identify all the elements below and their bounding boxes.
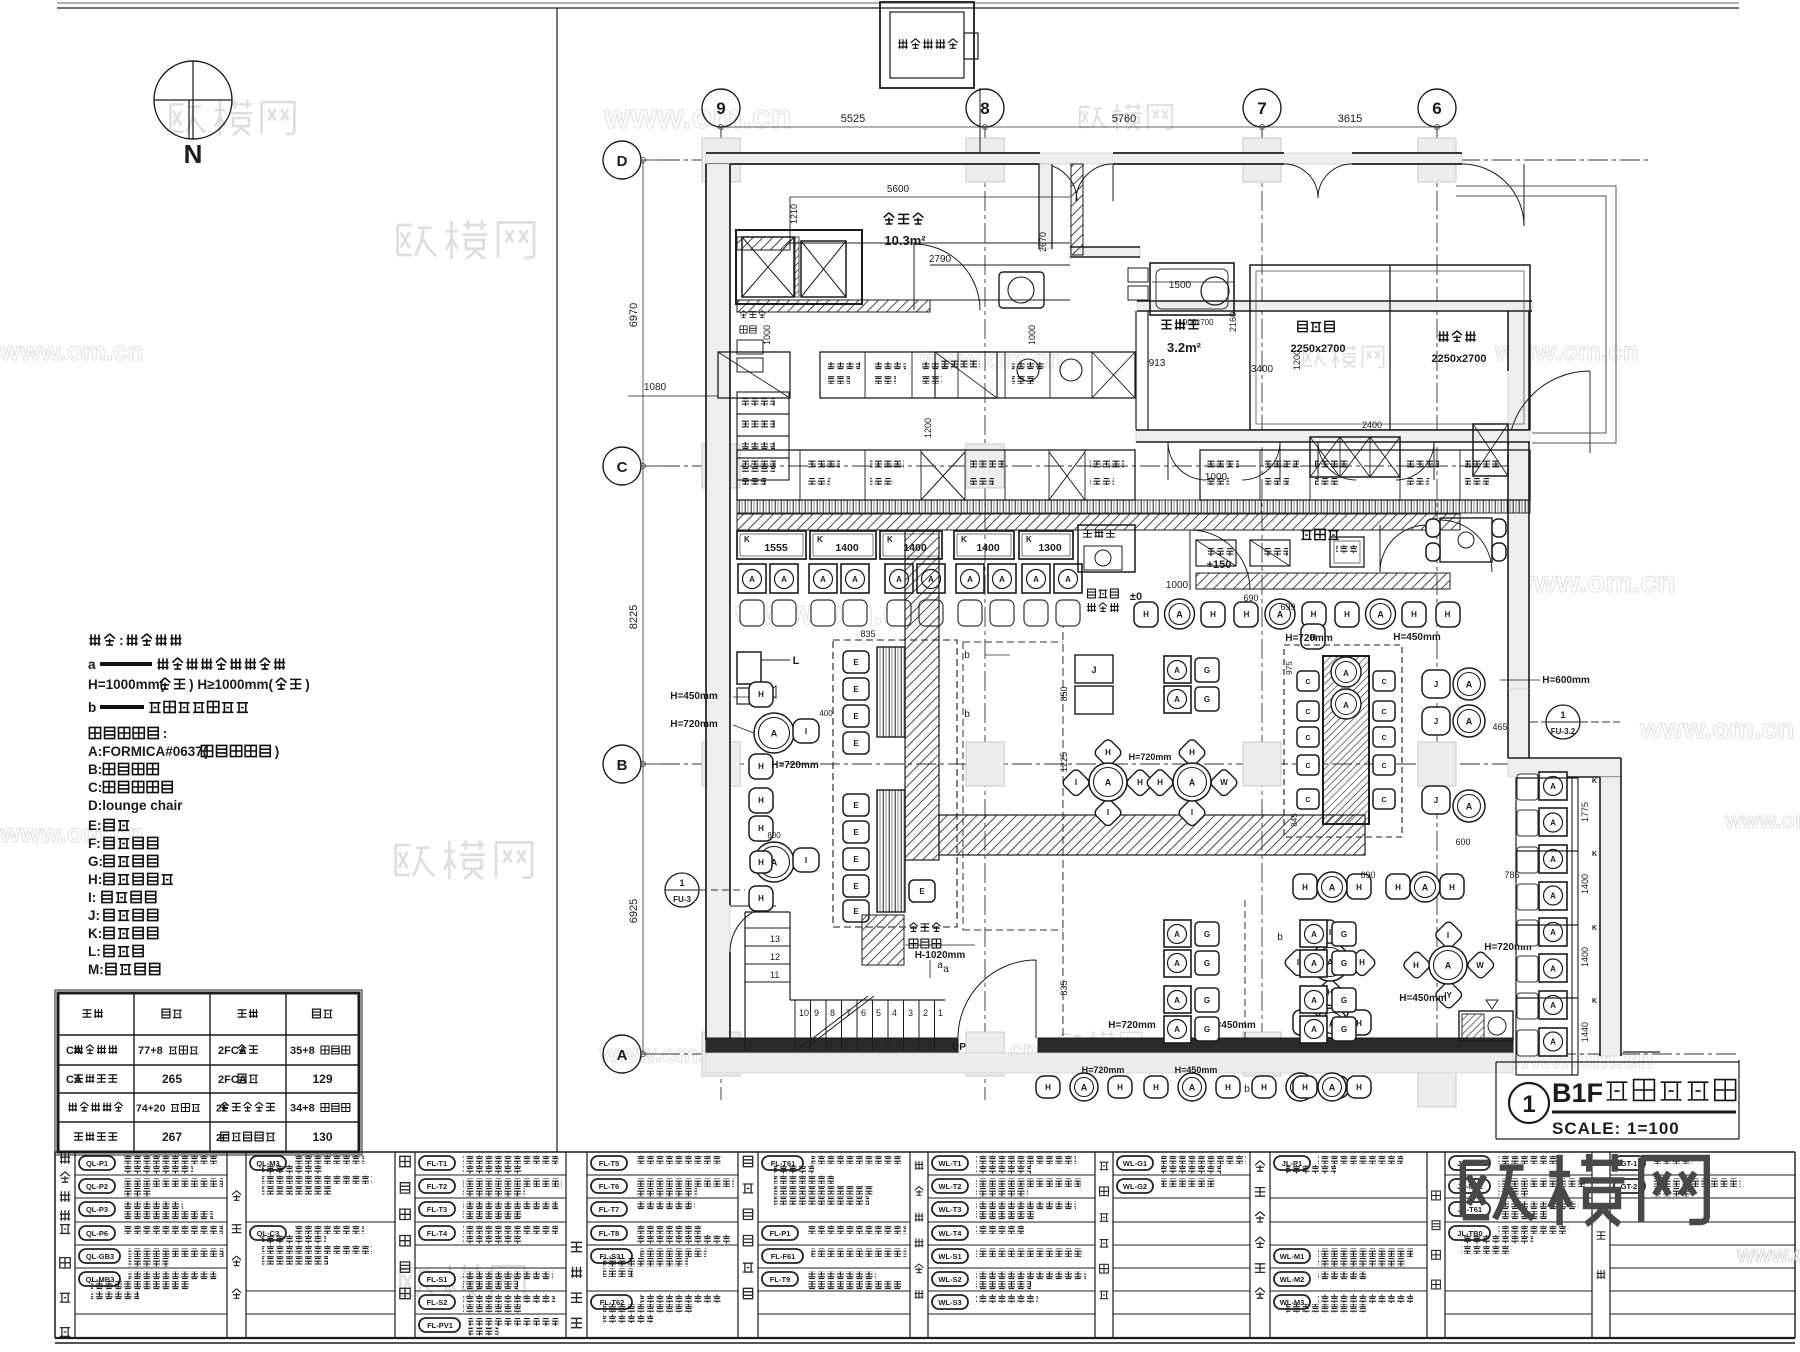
svg-text:H=720mm: H=720mm [1285, 633, 1333, 644]
svg-text:E: E [853, 882, 859, 891]
svg-text:G: G [1341, 1025, 1347, 1034]
svg-text:FL-T4: FL-T4 [427, 1229, 448, 1238]
svg-text:5600: 5600 [887, 184, 910, 195]
svg-text:1: 1 [679, 878, 684, 888]
staff room door [1380, 525, 1427, 572]
svg-text:H:: H: [88, 872, 102, 887]
svg-text:QL-GB3: QL-GB3 [86, 1252, 114, 1261]
svg-text:H: H [758, 824, 764, 833]
svg-text:A: A [1422, 883, 1429, 893]
svg-text:CA: CA [66, 1074, 82, 1086]
svg-text:I: I [805, 856, 807, 865]
staff table with 4 chairs [1440, 518, 1492, 562]
wall below cold rooms [1136, 430, 1530, 442]
svg-text:H: H [1244, 610, 1250, 619]
svg-text:FL-T8: FL-T8 [599, 1229, 619, 1238]
svg-text:GT-1: GT-1 [1621, 1159, 1638, 1168]
svg-text:K: K [1592, 998, 1597, 1005]
svg-text:6: 6 [861, 1008, 866, 1018]
svg-text:10.3m²: 10.3m² [884, 233, 926, 248]
title block B1F [1496, 1052, 1739, 1139]
left cluster 2 [749, 816, 773, 841]
svg-text:1000: 1000 [1027, 325, 1037, 345]
J chairs + round tables [1422, 670, 1450, 698]
svg-text:C: C [1305, 709, 1310, 716]
svg-text:H=720mm: H=720mm [1082, 1065, 1125, 1075]
svg-text:H: H [758, 894, 764, 903]
svg-text:a: a [937, 960, 943, 971]
svg-text:1440: 1440 [1580, 1022, 1590, 1042]
clusters lower right [1315, 918, 1345, 948]
svg-text:A: A [1311, 996, 1317, 1005]
kitchen counters upper row [718, 352, 790, 398]
svg-text:6970: 6970 [628, 303, 640, 327]
svg-text:G: G [1204, 695, 1210, 704]
svg-text:I:: I: [88, 890, 96, 905]
right exterior wall lower [1600, 777, 1621, 1056]
svg-text:C: C [1381, 735, 1386, 742]
svg-text:H=450mm: H=450mm [1393, 632, 1441, 643]
+150 door arc right [1440, 520, 1492, 572]
svg-text:G: G [1204, 930, 1210, 939]
H=720 mid label [749, 788, 773, 813]
bar E chairs and striped tables [843, 651, 869, 673]
svg-text:QL-P1: QL-P1 [86, 1159, 108, 1168]
svg-text:K: K [1592, 851, 1597, 858]
svg-text:A: A [852, 575, 858, 584]
svg-text:W: W [1476, 961, 1484, 970]
svg-text:2670: 2670 [1038, 232, 1048, 252]
svg-text:FL-T5: FL-T5 [599, 1159, 619, 1168]
FU circles [665, 873, 699, 907]
svg-text:A: A [967, 575, 973, 584]
svg-text:QL-P6: QL-P6 [86, 1229, 108, 1238]
svg-text:E: E [853, 739, 859, 748]
wall under corridor y255 [1070, 247, 1140, 257]
svg-text:WL-S1: WL-S1 [938, 1252, 961, 1261]
svg-text:C: C [1305, 679, 1310, 686]
svg-text:1400: 1400 [835, 542, 859, 554]
svg-text:A: A [1466, 717, 1473, 727]
svg-text:www.om.cn: www.om.cn [1724, 808, 1800, 833]
svg-text:2: 2 [923, 1008, 928, 1018]
svg-text:H: H [1302, 883, 1308, 892]
svg-text:QL-P3: QL-P3 [86, 1205, 108, 1214]
svg-text:5525: 5525 [841, 113, 865, 125]
svg-text:2F: 2F [216, 1103, 229, 1115]
svg-text:K: K [1592, 778, 1597, 785]
svg-text:CA: CA [66, 1045, 82, 1057]
svg-text:A: A [1065, 575, 1071, 584]
dry goods room walls [737, 237, 790, 250]
svg-text:H: H [1311, 610, 1317, 619]
sheet border frame [57, 2, 1739, 4]
double door top 1 [1040, 164, 1113, 201]
communal long table [1284, 645, 1402, 837]
svg-text:3400: 3400 [1251, 364, 1274, 375]
svg-text:1555: 1555 [764, 542, 788, 554]
svg-text:A: A [1466, 680, 1473, 690]
svg-text:A: A [1174, 1025, 1180, 1034]
door right wall [1508, 371, 1590, 453]
boxes under dry room [935, 352, 997, 398]
svg-text:3: 3 [908, 1008, 913, 1018]
svg-text:975: 975 [1285, 661, 1294, 675]
svg-text:1080: 1080 [644, 382, 667, 393]
svg-text:) H≥1000mm(: ) H≥1000mm( [189, 677, 273, 692]
svg-text:12: 12 [770, 952, 780, 962]
grid dimension texts [721, 126, 1437, 128]
svg-text:H=450mm: H=450mm [670, 691, 718, 702]
svg-text:A: A [1343, 669, 1349, 678]
svg-text:b: b [1277, 932, 1283, 943]
svg-text:9: 9 [814, 1008, 819, 1018]
svg-text:2400: 2400 [1362, 420, 1382, 430]
svg-text:H: H [758, 796, 764, 805]
svg-text:H=720mm: H=720mm [670, 719, 718, 730]
svg-text:H: H [1045, 1083, 1051, 1092]
svg-text:A: A [1174, 996, 1180, 1005]
svg-text:267: 267 [162, 1130, 182, 1144]
tile tick row [737, 500, 1530, 513]
svg-text:www.om.cn: www.om.cn [0, 336, 144, 366]
schedule category columns [55, 1152, 1610, 1338]
cold rooms [1250, 265, 1530, 430]
svg-text:74+20: 74+20 [136, 1103, 166, 1115]
svg-text:I: I [1107, 808, 1109, 817]
svg-text:A: A [781, 575, 787, 584]
svg-text:8: 8 [980, 99, 989, 118]
svg-text:WL-S2: WL-S2 [938, 1275, 961, 1284]
svg-text:FL-T6: FL-T6 [599, 1182, 619, 1191]
svg-text:A: A [1466, 802, 1473, 812]
svg-text:2160: 2160 [1228, 312, 1238, 332]
svg-text:I: I [1297, 958, 1299, 967]
svg-text:J: J [1434, 717, 1438, 726]
svg-text:1: 1 [1560, 710, 1565, 720]
svg-text:W: W [1220, 778, 1228, 787]
svg-text:G: G [1341, 930, 1347, 939]
svg-text:FU-3.2: FU-3.2 [1551, 727, 1576, 736]
svg-text:A: A [1176, 610, 1183, 620]
svg-text:699: 699 [1280, 602, 1295, 612]
svg-text:2790: 2790 [929, 254, 952, 265]
svg-text:FL-T1: FL-T1 [427, 1159, 447, 1168]
schedule content groups [75, 1174, 227, 1176]
svg-text:H=600mm: H=600mm [1542, 675, 1590, 686]
svg-text:C: C [1305, 735, 1310, 742]
svg-text:G: G [1341, 996, 1347, 1005]
C-line long counter [737, 450, 1135, 500]
svg-text:A: A [1311, 959, 1317, 968]
svg-text:FL-T2: FL-T2 [427, 1182, 447, 1191]
hatched band horizontal mid [939, 815, 1365, 855]
svg-text:H: H [1356, 883, 1362, 892]
svg-text:6: 6 [1432, 99, 1441, 118]
svg-text:I: I [805, 727, 807, 736]
svg-text:A: A [1550, 782, 1556, 791]
dining cluster tables [1093, 738, 1123, 768]
svg-text:H: H [1137, 778, 1143, 787]
svg-text:K: K [961, 535, 967, 544]
left wall cabinet stack [737, 392, 789, 414]
svg-text:B1F: B1F [1552, 1078, 1603, 1108]
svg-text:850: 850 [1059, 686, 1069, 701]
svg-text:L:: L: [88, 944, 101, 959]
svg-text:E:: E: [88, 818, 102, 833]
svg-text:129: 129 [312, 1072, 332, 1086]
svg-text:D:lounge chair: D:lounge chair [88, 798, 183, 813]
svg-text:H: H [758, 690, 764, 699]
svg-text:H=1000mm(: H=1000mm( [88, 677, 165, 692]
fridge boxes left of cluster [1075, 655, 1113, 683]
svg-text:J: J [1434, 796, 1438, 805]
svg-text:A: A [1174, 666, 1180, 675]
svg-text:): ) [275, 744, 280, 759]
wash stand [1078, 525, 1135, 572]
svg-text:G:: G: [88, 854, 103, 869]
svg-text:B:: B: [88, 762, 102, 777]
svg-text:1210: 1210 [789, 204, 799, 224]
svg-text:A: A [1550, 1038, 1556, 1047]
svg-text:FL-F61: FL-F61 [771, 1252, 796, 1261]
svg-text:WL-T1: WL-T1 [939, 1159, 962, 1168]
svg-text:SCALE: 1=100: SCALE: 1=100 [1552, 1119, 1680, 1138]
svg-text:K: K [1026, 535, 1032, 544]
svg-text:±0: ±0 [1130, 591, 1142, 603]
dry goods labels [884, 213, 924, 224]
svg-text:H: H [1302, 1083, 1308, 1092]
svg-text:WL-G1: WL-G1 [1123, 1159, 1147, 1168]
C counter labels [742, 460, 776, 468]
svg-text:7: 7 [1257, 99, 1266, 118]
structural columns (grey) [702, 138, 1456, 1107]
bottom right cart [1459, 1011, 1513, 1041]
svg-text:A: A [1174, 930, 1180, 939]
svg-text:H=720mm: H=720mm [771, 760, 819, 771]
svg-text:8: 8 [830, 1008, 835, 1018]
svg-text:2F: 2F [216, 1132, 229, 1144]
svg-text:H: H [1105, 748, 1111, 757]
svg-text:845: 845 [1290, 813, 1299, 827]
svg-text:FL-P1: FL-P1 [770, 1229, 791, 1238]
svg-text:M:: M: [88, 962, 104, 977]
svg-text:): ) [305, 677, 310, 692]
svg-text:www.om.cn: www.om.cn [1639, 713, 1795, 744]
svg-text:130: 130 [312, 1130, 332, 1144]
staircase [744, 912, 746, 1050]
svg-text:H: H [1344, 610, 1350, 619]
A/G square blocks [1164, 656, 1191, 683]
svg-text:H=450mm: H=450mm [1399, 993, 1447, 1004]
svg-text:G: G [1204, 959, 1210, 968]
svg-text:A: A [1445, 961, 1452, 971]
svg-text:1200: 1200 [923, 418, 933, 438]
svg-text:A: A [1550, 1001, 1556, 1010]
svg-text:H: H [1411, 610, 1417, 619]
svg-text:H: H [1449, 883, 1455, 892]
left cluster 1 [749, 682, 773, 707]
svg-text:A: A [771, 729, 778, 739]
top exterior wall along grid D [706, 153, 1462, 164]
svg-text:H: H [1356, 1083, 1362, 1092]
svg-text:A: A [1105, 778, 1112, 788]
svg-text:WL-S3: WL-S3 [938, 1298, 961, 1307]
svg-text:FL-T7: FL-T7 [599, 1205, 619, 1214]
svg-text:1400: 1400 [1580, 874, 1590, 894]
svg-text:1200: 1200 [1292, 350, 1302, 370]
hatched wall x1071 [1071, 164, 1083, 255]
svg-text:E: E [853, 685, 859, 694]
grid bubbles left D C B A [603, 141, 641, 179]
svg-text:465: 465 [1492, 722, 1507, 732]
svg-text:K: K [1592, 925, 1597, 932]
elevator block [736, 230, 862, 304]
svg-text:A: A [1550, 819, 1556, 828]
svg-text:A: A [1550, 928, 1556, 937]
svg-text:E: E [853, 907, 859, 916]
trio bottom [1293, 1010, 1317, 1035]
svg-text:A: A [1343, 701, 1349, 710]
svg-text:H=450mm: H=450mm [1175, 1065, 1218, 1075]
svg-text:www.om.cn: www.om.cn [0, 818, 144, 848]
svg-text:WL-M1: WL-M1 [1280, 1252, 1305, 1261]
svg-text:H=720mm: H=720mm [1129, 752, 1172, 762]
right exterior wall upper [1508, 311, 1529, 689]
double door top 2 [1284, 164, 1352, 198]
sink unit [1150, 263, 1234, 315]
svg-text:H: H [1157, 778, 1163, 787]
svg-text:A: A [896, 575, 902, 584]
svg-text:A: A [1550, 965, 1556, 974]
svg-text:E: E [853, 855, 859, 864]
svg-text:1: 1 [1522, 1091, 1535, 1118]
svg-text:2FCA: 2FCA [218, 1074, 247, 1086]
svg-text:E: E [853, 801, 859, 810]
svg-text:A: A [1081, 1083, 1088, 1093]
svg-text:b: b [1244, 1084, 1250, 1095]
svg-text:b: b [88, 700, 96, 715]
svg-text:J: J [1091, 665, 1096, 675]
svg-text:H: H [1356, 1019, 1362, 1028]
svg-text:WL-T3: WL-T3 [939, 1205, 962, 1214]
svg-text:H: H [1261, 1083, 1267, 1092]
svg-text:+150: +150 [1207, 559, 1232, 571]
hatched wall below dry room [737, 300, 930, 312]
svg-text:FL-PV1: FL-PV1 [427, 1321, 453, 1330]
svg-text:A: A [1329, 883, 1336, 893]
svg-text:11: 11 [770, 970, 779, 980]
svg-text:FL-S1: FL-S1 [427, 1275, 448, 1284]
row H A H x2 at y887 [1293, 874, 1317, 899]
svg-text:UP: UP [952, 1042, 966, 1053]
svg-text:a: a [943, 964, 949, 975]
svg-text:www.om.cn: www.om.cn [603, 98, 792, 136]
svg-text:A: A [1377, 610, 1384, 620]
svg-text:3.2m²: 3.2m² [1167, 340, 1202, 355]
svg-text:5: 5 [876, 1008, 881, 1018]
svg-text:www.om.cn: www.om.cn [1509, 566, 1676, 599]
counter labels upper row [828, 362, 860, 370]
small cabinets staff wall [1196, 540, 1236, 566]
dining chair row below staff band [1134, 602, 1158, 627]
svg-text:H=720mm: H=720mm [1108, 1020, 1156, 1031]
svg-text:8225: 8225 [628, 605, 640, 629]
bottom schedule table frame [55, 1152, 1795, 1343]
svg-text:C: C [1305, 797, 1310, 804]
svg-text:FL-T3: FL-T3 [427, 1205, 447, 1214]
svg-text:10: 10 [799, 1008, 809, 1018]
svg-text:WL-T2: WL-T2 [939, 1182, 962, 1191]
corridor wall x1039 [1039, 164, 1052, 249]
svg-text:E: E [853, 658, 859, 667]
svg-text:H: H [1210, 610, 1216, 619]
svg-text:D: D [617, 153, 628, 170]
svg-text:K: K [744, 535, 750, 544]
svg-text:H: H [1225, 1083, 1231, 1092]
svg-text:265: 265 [162, 1072, 182, 1086]
bar dashed outline [833, 640, 957, 927]
svg-text:G: G [1204, 996, 1210, 1005]
svg-text:A: A [1311, 1025, 1317, 1034]
svg-text:A: A [1311, 930, 1317, 939]
svg-text:K: K [817, 535, 823, 544]
svg-text:WL-M2: WL-M2 [1280, 1275, 1305, 1284]
svg-text:1400: 1400 [1580, 947, 1590, 967]
corridor door arcs [1168, 442, 1206, 480]
svg-text:F:: F: [88, 836, 101, 851]
svg-text:A: A [999, 575, 1005, 584]
svg-text:77+8: 77+8 [138, 1045, 163, 1057]
right wall mid continues to step [1508, 689, 1529, 758]
watermark light gray logos [170, 100, 1383, 1300]
main hatched wall band [737, 514, 1460, 530]
svg-text:B: B [617, 757, 628, 774]
svg-text:835: 835 [1059, 980, 1069, 995]
svg-text::: : [163, 726, 168, 741]
svg-text:913: 913 [1149, 358, 1166, 369]
svg-text:13: 13 [770, 934, 780, 944]
staff area hatched band [1196, 573, 1450, 589]
svg-text:1225: 1225 [1059, 752, 1069, 772]
svg-text:I: I [1191, 808, 1193, 817]
seat quantity table [55, 990, 362, 1155]
svg-text:WL-T4: WL-T4 [939, 1229, 963, 1238]
svg-text:FL-S2: FL-S2 [427, 1298, 448, 1307]
svg-text:H: H [1395, 883, 1401, 892]
outdoor terrace outline thin [1456, 186, 1616, 443]
staff room label [1301, 529, 1338, 539]
svg-text:1400: 1400 [976, 542, 1000, 554]
fire hydrant text mid [1088, 589, 1119, 598]
svg-text:QL-P2: QL-P2 [86, 1182, 108, 1191]
svg-text:E: E [919, 887, 925, 896]
trash L [737, 652, 761, 684]
svg-text:K:: K: [88, 926, 102, 941]
svg-text:A: A [1550, 855, 1556, 864]
svg-text:H: H [1117, 1083, 1123, 1092]
small boxes left wall [737, 340, 763, 354]
svg-text:1: 1 [938, 1008, 943, 1018]
svg-text:6925: 6925 [628, 899, 640, 923]
svg-text:35+8: 35+8 [290, 1045, 315, 1057]
svg-text:H: H [758, 858, 764, 867]
svg-text:A: A [1329, 1083, 1336, 1093]
left exterior wall [706, 164, 730, 1040]
svg-text:A: A [1550, 892, 1556, 901]
svg-text:C: C [1381, 709, 1386, 716]
svg-text:34+8: 34+8 [290, 1103, 315, 1115]
